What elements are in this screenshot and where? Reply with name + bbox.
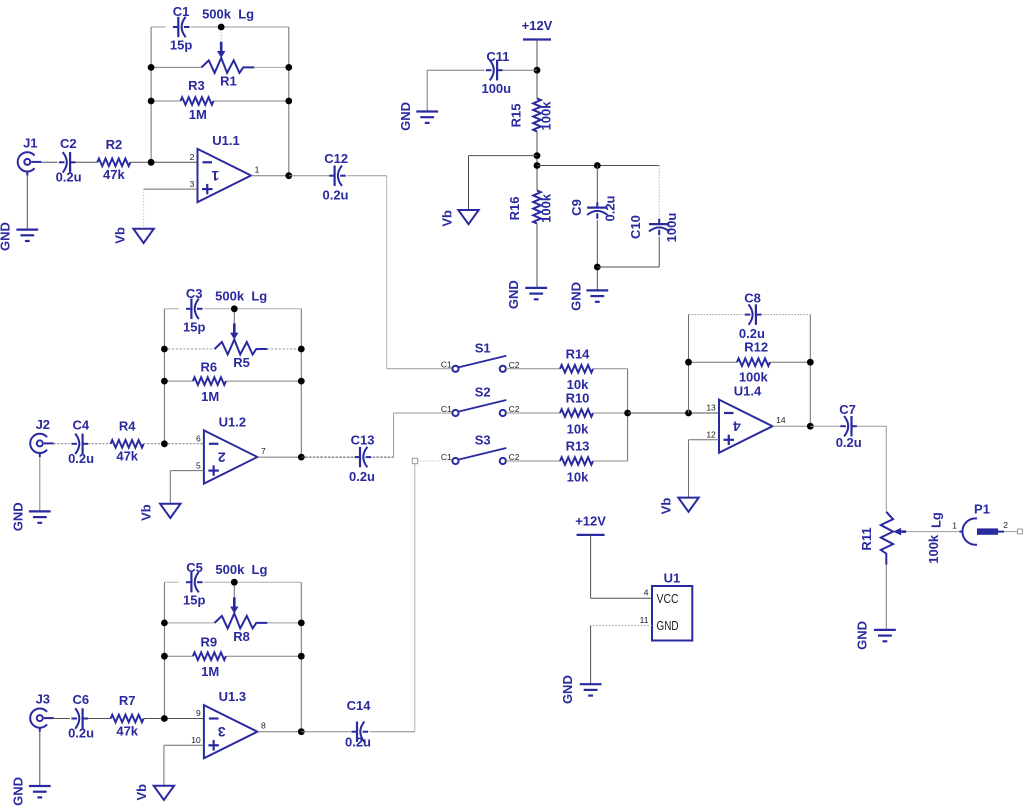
svg-text:VCC: VCC <box>657 591 679 606</box>
svg-text:J2: J2 <box>36 417 50 432</box>
svg-text:U1.3: U1.3 <box>219 689 246 704</box>
svg-text:Lg: Lg <box>928 512 943 528</box>
svg-text:C13: C13 <box>351 432 375 447</box>
svg-text:C1: C1 <box>441 452 452 462</box>
svg-text:11: 11 <box>640 615 649 625</box>
svg-text:4: 4 <box>644 588 649 598</box>
svg-text:C10: C10 <box>628 215 643 239</box>
svg-text:C1: C1 <box>441 404 452 414</box>
svg-text:15p: 15p <box>183 319 205 334</box>
svg-text:1: 1 <box>211 168 219 184</box>
svg-text:100k: 100k <box>739 370 769 385</box>
svg-text:C7: C7 <box>839 402 856 417</box>
svg-text:GND: GND <box>10 777 25 806</box>
svg-text:0.2u: 0.2u <box>345 735 371 750</box>
svg-text:R7: R7 <box>119 693 136 708</box>
svg-text:P1: P1 <box>974 501 990 516</box>
svg-text:R9: R9 <box>200 635 217 650</box>
svg-text:1: 1 <box>952 521 957 531</box>
svg-text:U1: U1 <box>664 571 681 586</box>
svg-text:+12V: +12V <box>575 513 606 528</box>
svg-text:8: 8 <box>261 721 266 731</box>
svg-text:Vb: Vb <box>113 227 128 244</box>
svg-text:47k: 47k <box>116 449 138 464</box>
svg-text:GND: GND <box>0 222 13 251</box>
svg-text:3: 3 <box>190 179 195 189</box>
svg-text:0.2u: 0.2u <box>349 469 375 484</box>
svg-text:U1.2: U1.2 <box>219 415 246 430</box>
svg-text:C14: C14 <box>347 698 372 713</box>
svg-text:R8: R8 <box>233 629 250 644</box>
svg-text:100k: 100k <box>539 101 554 131</box>
svg-text:0.2u: 0.2u <box>68 451 94 466</box>
svg-text:1M: 1M <box>189 107 207 122</box>
svg-text:2: 2 <box>1003 520 1008 530</box>
svg-text:9: 9 <box>196 708 201 718</box>
svg-text:10k: 10k <box>567 421 589 436</box>
svg-text:0.2u: 0.2u <box>56 170 82 185</box>
svg-text:U1.4: U1.4 <box>734 384 762 399</box>
svg-text:Vb: Vb <box>659 498 674 515</box>
svg-text:15p: 15p <box>183 593 205 608</box>
svg-text:R13: R13 <box>566 439 590 454</box>
svg-text:R14: R14 <box>566 347 591 362</box>
svg-text:500k Lg: 500k Lg <box>215 562 267 577</box>
svg-text:0.2u: 0.2u <box>603 195 618 221</box>
svg-text:S2: S2 <box>475 385 491 400</box>
svg-text:GND: GND <box>398 102 413 131</box>
svg-text:Vb: Vb <box>139 504 154 521</box>
svg-text:C5: C5 <box>186 560 203 575</box>
svg-text:R2: R2 <box>106 137 123 152</box>
svg-text:13: 13 <box>706 403 716 413</box>
svg-text:GND: GND <box>506 280 521 309</box>
svg-text:10: 10 <box>191 735 201 745</box>
svg-text:C12: C12 <box>324 151 348 166</box>
svg-text:R6: R6 <box>200 360 217 375</box>
svg-text:500k Lg: 500k Lg <box>215 288 267 303</box>
svg-text:2: 2 <box>190 152 195 162</box>
svg-text:GND: GND <box>10 502 25 531</box>
svg-text:GND: GND <box>657 618 679 633</box>
svg-text:S3: S3 <box>475 433 491 448</box>
svg-text:Vb: Vb <box>440 210 455 227</box>
svg-text:47k: 47k <box>116 723 138 738</box>
svg-text:14: 14 <box>776 415 786 425</box>
svg-text:500k Lg: 500k Lg <box>202 7 254 22</box>
svg-text:R10: R10 <box>566 391 590 406</box>
svg-text:C1: C1 <box>441 360 452 370</box>
svg-text:0.2u: 0.2u <box>322 188 348 203</box>
svg-text:R11: R11 <box>859 527 874 550</box>
svg-text:4: 4 <box>733 419 741 435</box>
svg-text:15p: 15p <box>170 38 192 53</box>
svg-text:100k: 100k <box>539 193 554 223</box>
svg-text:C1: C1 <box>173 4 190 19</box>
svg-text:6: 6 <box>196 434 201 444</box>
svg-text:47k: 47k <box>103 167 125 182</box>
svg-text:J1: J1 <box>23 136 37 151</box>
svg-text:+12V: +12V <box>522 18 553 33</box>
svg-text:0.2u: 0.2u <box>836 435 862 450</box>
svg-text:R12: R12 <box>744 339 768 354</box>
svg-text:GND: GND <box>568 282 583 311</box>
svg-text:10k: 10k <box>567 469 589 484</box>
svg-text:2: 2 <box>218 450 226 466</box>
svg-text:R15: R15 <box>509 103 524 127</box>
svg-text:GND: GND <box>560 675 575 704</box>
svg-text:5: 5 <box>196 460 201 470</box>
svg-text:C6: C6 <box>72 692 89 707</box>
svg-text:J3: J3 <box>36 692 50 707</box>
svg-text:R5: R5 <box>233 355 250 370</box>
svg-text:R1: R1 <box>220 73 237 88</box>
svg-text:1M: 1M <box>201 664 219 679</box>
svg-text:C4: C4 <box>72 417 89 432</box>
svg-text:R16: R16 <box>507 196 522 220</box>
svg-text:C2: C2 <box>60 136 77 151</box>
svg-text:C11: C11 <box>486 49 509 64</box>
svg-text:7: 7 <box>261 446 266 456</box>
svg-text:S1: S1 <box>475 340 491 355</box>
svg-text:GND: GND <box>854 621 869 650</box>
svg-text:U1.1: U1.1 <box>212 133 239 148</box>
svg-text:100u: 100u <box>481 81 511 96</box>
svg-text:C9: C9 <box>569 199 584 216</box>
svg-text:C8: C8 <box>744 290 761 305</box>
svg-text:R3: R3 <box>188 78 205 93</box>
svg-text:12: 12 <box>706 430 716 440</box>
svg-text:3: 3 <box>218 724 226 740</box>
svg-text:R4: R4 <box>119 418 136 433</box>
svg-text:1: 1 <box>255 164 260 174</box>
svg-text:C3: C3 <box>186 286 203 301</box>
svg-text:0.2u: 0.2u <box>68 726 94 741</box>
svg-text:Vb: Vb <box>134 784 149 801</box>
svg-text:100u: 100u <box>664 213 679 243</box>
svg-text:1M: 1M <box>201 389 219 404</box>
svg-text:100k: 100k <box>926 534 941 564</box>
